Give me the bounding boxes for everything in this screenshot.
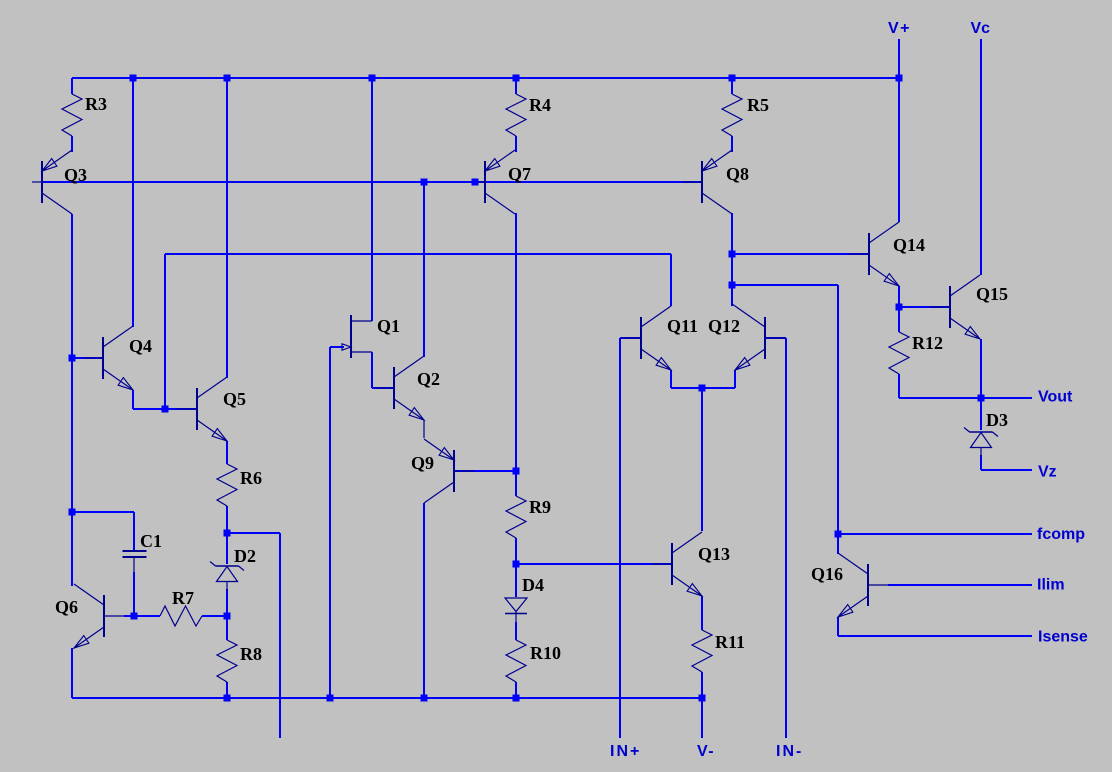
node junction 26 [513, 695, 520, 702]
wire Vout lead [981, 397, 1032, 399]
transistor Q16 [811, 553, 888, 617]
svg-text:V+: V+ [888, 20, 911, 37]
wire node to substrate stub [227, 533, 280, 738]
node junction 7 [421, 179, 428, 186]
svg-text:Q13: Q13 [698, 544, 730, 564]
terminal Vc [971, 20, 991, 37]
transistor Q2 [374, 356, 440, 420]
terminal Ilim [1037, 577, 1065, 594]
node junction 21 [513, 561, 520, 568]
wire Q14 emitter node chain [898, 286, 900, 398]
svg-text:Q4: Q4 [129, 336, 152, 356]
transistor Q3 [32, 150, 87, 214]
resistor R4 [506, 94, 551, 136]
wire Vz lead [981, 469, 1032, 471]
wire Q7 collector to R9 to D4 chain [515, 213, 517, 698]
node junction 11 [896, 304, 903, 311]
wire D3 connections [980, 398, 982, 470]
wire Q12-collector to fcomp node [732, 285, 838, 534]
wire Q16 emitter to Isense [838, 617, 1032, 636]
wire Q2 emitter to Q9 emitter connector [423, 420, 425, 438]
svg-text:IN-: IN- [776, 743, 803, 760]
wire Q5 emitter to R6 [226, 441, 228, 464]
svg-text:Q6: Q6 [55, 597, 78, 617]
wire emitters to tail node [671, 370, 735, 388]
wire Q4 base [72, 357, 103, 359]
node junction 19 [224, 613, 231, 620]
resistor R10 [506, 640, 561, 682]
wire V+ terminal drop [898, 39, 900, 222]
wire Q8-collector to Q14-base [732, 253, 869, 255]
svg-text:Q14: Q14 [893, 235, 925, 255]
terminal Vz [1038, 464, 1057, 481]
svg-text:Q11: Q11 [667, 316, 698, 336]
resistor R9 [506, 496, 551, 538]
svg-text:Vz: Vz [1038, 464, 1057, 481]
wire D2 connections [226, 533, 228, 616]
svg-text:R6: R6 [240, 468, 262, 488]
terminal Vout [1038, 389, 1073, 406]
wire R5 stubs [731, 78, 733, 152]
wire base bus Q3-Q7-Q8 [42, 181, 702, 183]
svg-text:Q1: Q1 [377, 316, 400, 336]
svg-text:D4: D4 [522, 575, 544, 595]
svg-text:Vout: Vout [1038, 389, 1073, 406]
jfet Q1 [342, 315, 400, 358]
transistor Q4 [83, 326, 152, 390]
svg-text:Isense: Isense [1038, 629, 1088, 646]
terminal V+ [888, 20, 911, 37]
wire Q5 collector riser [226, 78, 228, 378]
wire Q4 collector riser [132, 78, 134, 327]
svg-text:Q5: Q5 [223, 389, 246, 409]
node junction 1 [130, 75, 137, 82]
node junction 17 [224, 530, 231, 537]
node junction 9 [729, 251, 736, 258]
svg-text:R11: R11 [715, 632, 745, 652]
wire IN+ input [620, 338, 641, 738]
node junction 10 [729, 282, 736, 289]
wire IN- input [765, 338, 786, 738]
wire Q11 collector [670, 254, 672, 306]
capacitor C1 [123, 531, 163, 572]
svg-text:R3: R3 [85, 94, 107, 114]
resistor R6 [217, 464, 262, 506]
transistor Q15 [930, 275, 1008, 339]
svg-text:R9: R9 [529, 497, 551, 517]
transistor Q12 [708, 304, 785, 370]
svg-text:Q12: Q12 [708, 316, 740, 336]
terminal IN- [776, 743, 803, 760]
transistor Q13 [652, 532, 730, 596]
svg-text:D2: D2 [234, 546, 256, 566]
node junction 4 [513, 75, 520, 82]
resistor R8 [217, 640, 262, 682]
terminal fcomp [1037, 526, 1085, 543]
transistor Q5 [177, 377, 246, 441]
svg-text:Q3: Q3 [64, 165, 87, 185]
node junction 18 [131, 613, 138, 620]
wire feedback Q5-base to Q11-collector [165, 254, 671, 409]
resistor R11 [692, 630, 745, 672]
node junction 22 [699, 385, 706, 392]
wire fcomp lead [838, 533, 1032, 535]
wire Q15 base [899, 306, 950, 308]
transistor Q6 [55, 584, 124, 648]
wire Q4 emitter to Q5 base node [133, 390, 165, 409]
node junction 23 [224, 695, 231, 702]
resistor R3 [62, 94, 107, 136]
svg-text:D3: D3 [986, 410, 1008, 430]
svg-text:V-: V- [697, 743, 715, 760]
svg-text:Q16: Q16 [811, 564, 843, 584]
resistor R5 [722, 94, 769, 136]
wire V- terminal drop [701, 698, 703, 738]
wire left rail Q3-collector to Q6 [71, 214, 73, 586]
wire Q1 drain riser [371, 78, 373, 321]
wire C1 branch [72, 512, 134, 616]
wire R6 to D2 node [226, 506, 228, 533]
wire Ilim lead [888, 584, 1032, 586]
wire Q9 collector drop [423, 503, 425, 698]
node junction 3 [369, 75, 376, 82]
node junction 12 [978, 395, 985, 402]
svg-text:R5: R5 [747, 95, 769, 115]
svg-text:Q8: Q8 [726, 164, 749, 184]
svg-text:Q7: Q7 [508, 164, 531, 184]
node junction 8 [472, 179, 479, 186]
terminal V- [697, 743, 715, 760]
transistor Q9 [411, 439, 474, 503]
wire Q1 source to Q2 base [372, 352, 394, 388]
transistor Q8 [682, 150, 749, 214]
wire Q2 collector riser [423, 182, 425, 357]
node junction 5 [729, 75, 736, 82]
svg-text:C1: C1 [140, 531, 162, 551]
node junction 2 [224, 75, 231, 82]
wire tail node to Q13 collector [701, 388, 703, 531]
node junction 13 [835, 531, 842, 538]
diode D2 zener [210, 546, 256, 591]
node junction 25 [421, 695, 428, 702]
svg-text:R7: R7 [172, 588, 194, 608]
wire R11 to V- node [701, 672, 703, 698]
wire R3 stubs [71, 78, 73, 152]
wire Q9 base [454, 470, 516, 472]
wire Q15 emitter to Vout node [980, 339, 982, 398]
resistor R7 [160, 588, 202, 626]
wire Q6 base to node [124, 615, 134, 617]
wire Q5 base [165, 408, 197, 410]
wire V+ rail (top) [72, 77, 899, 79]
wire R8 stubs [226, 616, 228, 698]
svg-text:R8: R8 [240, 644, 262, 664]
svg-text:IN+: IN+ [610, 743, 641, 760]
svg-text:Vc: Vc [971, 20, 991, 37]
transistor Q7 [475, 150, 531, 214]
svg-text:R10: R10 [530, 643, 561, 663]
svg-text:Q9: Q9 [411, 453, 434, 473]
node junction 20 [513, 468, 520, 475]
diode D3 zener [964, 410, 1008, 457]
svg-text:fcomp: fcomp [1037, 526, 1085, 543]
terminal Isense [1038, 629, 1088, 646]
diode D4 [505, 575, 544, 622]
wire R12 bottom to Vout node [899, 397, 981, 399]
wire bottom rail [72, 697, 702, 699]
svg-text:R12: R12 [912, 333, 943, 353]
node junction 15 [69, 509, 76, 516]
wire Q1 gate [330, 347, 344, 698]
svg-text:Q2: Q2 [417, 369, 440, 389]
wire Q8 collector drop [731, 213, 733, 306]
wire Vc terminal drop [980, 39, 982, 275]
wire Q6-emitter to ground rail [71, 648, 73, 698]
terminal IN+ [610, 743, 641, 760]
transistor Q14 [849, 222, 925, 286]
node junction 6 [896, 75, 903, 82]
resistor R12 [889, 332, 943, 374]
svg-text:Ilim: Ilim [1037, 577, 1065, 594]
svg-text:R4: R4 [529, 95, 551, 115]
wire Q13 base line [516, 563, 672, 565]
wire Q16 collector stub [837, 534, 839, 554]
node junction 14 [69, 355, 76, 362]
node junction 16 [162, 406, 169, 413]
transistor Q11 [621, 306, 698, 370]
node junction 24 [327, 695, 334, 702]
wire Q13 emitter to R11 [701, 596, 703, 630]
wire R4 stubs [515, 78, 517, 152]
wire R7 side wires [134, 615, 227, 617]
node junction 27 [699, 695, 706, 702]
svg-text:Q15: Q15 [976, 284, 1008, 304]
